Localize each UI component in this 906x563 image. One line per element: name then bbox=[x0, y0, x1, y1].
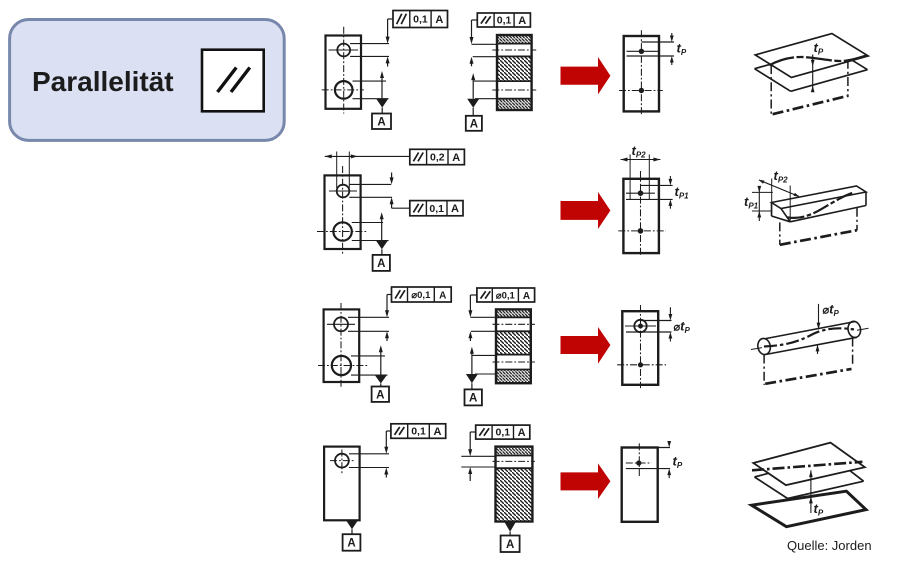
parallelism symbol square bbox=[202, 50, 264, 112]
row4 zone tolerance lines bbox=[639, 447, 670, 449]
row3 zone upper axis circle bbox=[634, 320, 646, 332]
row3 middle tolerance frame // oe0,1 A bbox=[477, 288, 535, 302]
row1 middle tolerance frame // 0,1 A bbox=[477, 13, 530, 27]
svg-text:A: A bbox=[347, 538, 355, 550]
svg-text:A: A bbox=[435, 14, 443, 26]
row3 left datum box A bbox=[372, 387, 389, 402]
title rounded box Parallelitaet bbox=[10, 20, 285, 141]
svg-text:A: A bbox=[470, 119, 478, 131]
row2 tolerance extension lines bbox=[349, 183, 391, 185]
row4 middle tolerance frame // 0,1 A bbox=[476, 425, 530, 439]
svg-text:0,1: 0,1 bbox=[429, 203, 444, 215]
svg-text:0,1: 0,1 bbox=[413, 14, 428, 26]
row4 3d dim line tp bbox=[810, 470, 812, 513]
row4 middle extension lines bbox=[461, 455, 495, 457]
row3 middle datum leader bbox=[470, 347, 474, 354]
row4 zone rectangle bbox=[622, 448, 658, 522]
row4 middle hatched block bbox=[496, 447, 533, 522]
row1 zone tolerance lines bbox=[641, 41, 674, 43]
row3 left datum triangle bbox=[375, 375, 387, 383]
row1 left plate bbox=[326, 36, 362, 109]
row3 middle hatched block bbox=[496, 309, 531, 383]
row2 top dim line bbox=[325, 155, 410, 157]
svg-text:Quelle: Jorden: Quelle: Jorden bbox=[787, 538, 872, 553]
row1 middle hole centerlines bbox=[492, 49, 536, 51]
row2 3d wavy surface bbox=[788, 193, 854, 218]
row2 zone rectangle bbox=[623, 179, 659, 253]
row3 middle leader bbox=[470, 294, 477, 296]
svg-text:⌀0,1: ⌀0,1 bbox=[496, 291, 516, 302]
row4 left plate bbox=[324, 447, 360, 521]
svg-text:0,2: 0,2 bbox=[430, 152, 445, 164]
row2 datum box A bbox=[373, 255, 390, 271]
row4 left hole bbox=[335, 454, 349, 468]
row3 3d datum trace dash-dot bbox=[763, 355, 765, 385]
row3 left plate bbox=[324, 309, 360, 382]
row2 3d tP2 dim bbox=[771, 179, 773, 217]
row1 red arrow bbox=[561, 57, 611, 94]
row4 middle hole centerline bbox=[493, 460, 535, 462]
row1 left upper hole bbox=[337, 44, 350, 57]
row3 middle datum triangle bbox=[466, 374, 478, 383]
svg-text:A: A bbox=[506, 539, 514, 551]
row3 left tolerance extension lines bbox=[348, 316, 389, 318]
row1 middle datum leader bbox=[471, 73, 475, 80]
row4 middle datum triangle bbox=[504, 522, 516, 532]
row3 zone tolerance lines bbox=[641, 320, 672, 322]
row2 zone tP1 arrows bbox=[669, 176, 671, 179]
row3 left leader bbox=[387, 294, 392, 296]
row3 3d axis extensions bbox=[751, 348, 762, 350]
row1 left lower dim arrow bbox=[386, 56, 390, 63]
row3 left tolerance frame // oe0,1 A bbox=[392, 287, 452, 302]
row4 left datum box A bbox=[343, 534, 361, 551]
row4 left leader bbox=[386, 430, 391, 432]
row3 left upper hole bbox=[334, 317, 348, 331]
svg-text:Parallelität: Parallelität bbox=[32, 66, 174, 97]
svg-text:⌀0,1: ⌀0,1 bbox=[411, 290, 431, 301]
svg-text:0,1: 0,1 bbox=[495, 427, 510, 439]
svg-text:0,1: 0,1 bbox=[411, 426, 426, 438]
row3 zone dim arrows bbox=[669, 307, 671, 314]
row1 zone upper axis dot bbox=[639, 49, 644, 54]
row1 left datum triangle bbox=[376, 99, 388, 108]
row2 left plate bbox=[325, 175, 361, 249]
svg-text:A: A bbox=[377, 258, 385, 270]
row1 left tolerance frame // 0,1 A bbox=[393, 11, 448, 28]
row2 left upper hole bbox=[337, 185, 350, 198]
svg-text:A: A bbox=[523, 291, 530, 302]
row4 3d datum trace on top plane bbox=[752, 462, 862, 471]
svg-text:A: A bbox=[377, 116, 385, 128]
row1 3d datum trace dash-dot bbox=[770, 65, 772, 116]
row1 left leader bbox=[388, 18, 393, 20]
row3 middle datum box A bbox=[465, 389, 482, 405]
row2 zone tP1 lines bbox=[641, 184, 673, 186]
row1 zone lower axis dot bbox=[639, 88, 644, 93]
row2 3d box top face bbox=[772, 186, 867, 209]
row3 red arrow bbox=[561, 327, 611, 364]
row4 3d middle plane bbox=[755, 473, 769, 477]
svg-text:A: A bbox=[469, 393, 477, 405]
svg-text:A: A bbox=[434, 426, 442, 438]
row2 vertical dim with arrows bbox=[391, 173, 393, 178]
row1 middle leader bbox=[472, 19, 478, 21]
row3 left datum leader bbox=[379, 345, 383, 352]
row4 left datum triangle bbox=[346, 520, 358, 529]
row2 top tolerance frame // 0,2 A bbox=[410, 149, 465, 164]
svg-text:A: A bbox=[452, 152, 460, 164]
svg-text:A: A bbox=[451, 203, 459, 215]
row2 datum leader bbox=[380, 212, 384, 219]
svg-text:A: A bbox=[518, 427, 526, 439]
row2 3d box edges bbox=[865, 192, 867, 206]
svg-text:A: A bbox=[518, 15, 526, 27]
row3 middle hole centerlines bbox=[493, 323, 535, 325]
row1 left vertical centerline bbox=[343, 27, 345, 114]
row2 left lower hole bbox=[333, 222, 351, 240]
row1 left datum box A bbox=[372, 114, 391, 130]
row1 middle hatched block bbox=[497, 35, 532, 110]
row2 3d tP1 dim bbox=[758, 186, 760, 221]
row1 3d lower plane bbox=[755, 64, 771, 68]
row3 3d cylinder bbox=[756, 337, 771, 355]
row1 3d dim line tp bbox=[812, 55, 814, 92]
row1 zone dim arrows bbox=[671, 33, 673, 36]
row2 datum triangle bbox=[376, 241, 388, 250]
row1 middle extension lines bbox=[472, 43, 498, 45]
svg-text:A: A bbox=[439, 290, 446, 301]
row2 datum extension lines bbox=[352, 222, 383, 224]
row1 3d upper plane bbox=[755, 34, 868, 78]
row1 left lower hole bbox=[335, 81, 353, 99]
row1 middle datum box A bbox=[466, 116, 482, 131]
row3 3d wavy axis bbox=[764, 328, 854, 346]
row4 3d top plane bbox=[753, 443, 865, 486]
svg-text:0,1: 0,1 bbox=[497, 15, 512, 27]
row3 left lower hole bbox=[332, 356, 351, 375]
row3 zone rectangle bbox=[622, 311, 658, 385]
row4 left tolerance extension lines bbox=[349, 453, 389, 455]
row2 bottom tolerance frame // 0,1 A bbox=[410, 201, 463, 216]
row1 middle datum triangle bbox=[467, 99, 479, 108]
row1 3d wavy surface bbox=[769, 55, 866, 65]
row4 zone axis dot bbox=[636, 460, 641, 465]
row3 3d dim oetP bbox=[818, 304, 820, 330]
row3 middle extension lines bbox=[470, 316, 496, 318]
row4 middle leader bbox=[470, 431, 476, 433]
row2 zone upper axis dot bbox=[638, 190, 644, 196]
row1 left tolerance extension lines bbox=[350, 43, 389, 45]
row4 zone dim arrows bbox=[668, 441, 670, 443]
row4 red arrow bbox=[561, 463, 611, 499]
row2 top extension lines bbox=[336, 152, 338, 189]
row1 left datum extension lines bbox=[353, 80, 387, 82]
row4 middle datum box A bbox=[501, 536, 520, 553]
row2 zone lower axis dot bbox=[638, 228, 644, 234]
row3 left datum extension lines bbox=[351, 355, 385, 357]
row4 3d bottom plane bbox=[752, 491, 866, 527]
row2 red arrow bbox=[561, 192, 611, 229]
row3 zone lower axis dot bbox=[638, 362, 643, 367]
row4 left tolerance frame // 0,1 A bbox=[391, 424, 446, 439]
row1 left datum leader bbox=[380, 71, 384, 78]
svg-text:A: A bbox=[376, 389, 384, 401]
row2 zone top dim bbox=[621, 159, 661, 161]
row2 3d datum trace dash-dot bbox=[779, 222, 781, 244]
row1 zone rectangle bbox=[624, 36, 659, 111]
